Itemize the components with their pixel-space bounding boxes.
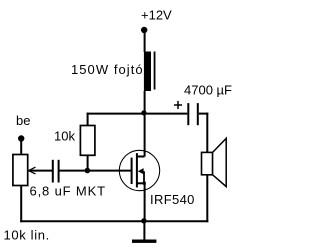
- wire node J1 left toward resistor branch: [87, 113, 146, 115]
- node be terminal dot: [18, 135, 24, 141]
- svg-text:IRF540: IRF540: [150, 192, 195, 207]
- capacitor C2 6.8uF right plate: [58, 160, 60, 183]
- ground bar: [132, 240, 156, 243]
- capacitor C1 polarity plus sign: [174, 104, 182, 106]
- svg-text:be: be: [16, 113, 30, 128]
- resistor R1 body: [80, 126, 95, 156]
- transistor Q1 source tap: [137, 182, 145, 184]
- wire node J1 to capacitor C1: [145, 113, 188, 115]
- capacitor C2 6.8uF left plate: [52, 160, 54, 183]
- node J1 junction dot: [141, 110, 146, 115]
- wire down to speaker LS1: [206, 113, 208, 153]
- node +12V terminal dot: [141, 27, 147, 33]
- wire ground rail: [20, 220, 208, 222]
- wire be dot to potentiometer P1: [20, 139, 22, 156]
- wire +12V dot to inductor: [144, 30, 146, 52]
- speaker LS1 body: [202, 152, 213, 174]
- svg-text:4700 µF: 4700 µF: [184, 82, 232, 97]
- inductor L1 core line: [154, 52, 156, 90]
- node J2 junction dot: [85, 168, 91, 174]
- transistor Q1 gate bar: [131, 158, 133, 184]
- transistor Q1 drain tap: [137, 156, 145, 158]
- transistor Q1 circle: [119, 150, 159, 190]
- transistor Q1 body arrow: [138, 168, 144, 174]
- inductor L1 150W fojto winding bar: [144, 52, 151, 92]
- svg-text:6,8 uF MKT: 6,8 uF MKT: [30, 184, 106, 199]
- svg-text:+12V: +12V: [141, 8, 172, 23]
- potentiometer P1 wiper arrow shaft: [29, 170, 53, 172]
- transistor Q1 channel bar: [136, 153, 138, 187]
- capacitor C1 4700uF right plate: [197, 103, 199, 125]
- wire capacitor C2 to transistor Q1 gate: [59, 170, 132, 172]
- svg-text:10k: 10k: [54, 129, 75, 144]
- wire inductor to node J1: [144, 91, 146, 115]
- wire speaker LS1 bottom to ground rail: [206, 175, 208, 222]
- potentiometer P1 wiper arrow barbs: [29, 167, 36, 170]
- node ground junction dot: [141, 218, 146, 223]
- ground stub: [143, 221, 145, 239]
- svg-text:10k lin.: 10k lin.: [4, 228, 50, 243]
- wire capacitor C1 to speaker branch: [199, 113, 209, 115]
- potentiometer P1 body: [13, 155, 28, 186]
- wire node J1 to transistor Q1 drain: [144, 114, 146, 157]
- wire transistor Q1 source to ground rail: [144, 183, 146, 221]
- speaker LS1 horn: [213, 138, 227, 186]
- wire resistor R1 bottom to gate node J2: [87, 155, 89, 170]
- wire down to resistor R1 top: [87, 113, 89, 126]
- capacitor C1 4700uF left plate: [187, 103, 189, 125]
- svg-text:150W fojtó: 150W fojtó: [71, 62, 144, 77]
- wire potentiometer P1 bottom to ground rail: [20, 186, 22, 223]
- transistor Q1 source junction dot: [143, 182, 146, 185]
